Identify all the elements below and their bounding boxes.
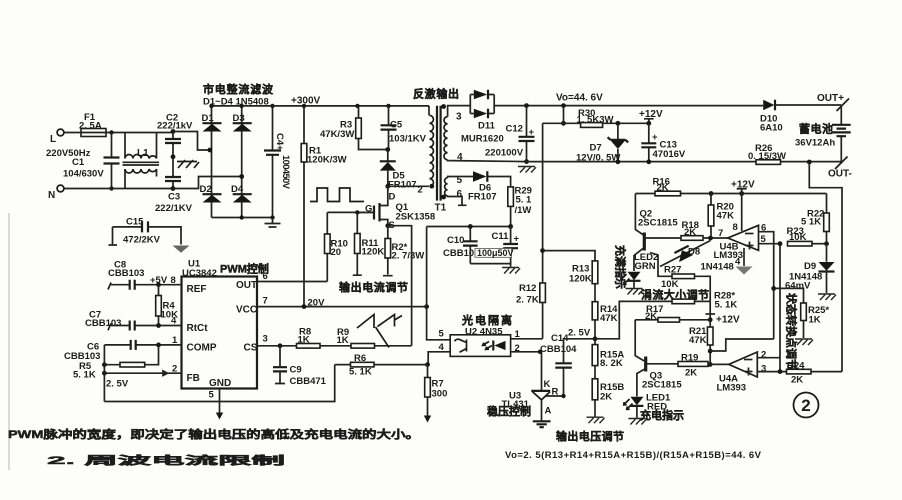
resistor R18 2K [664,237,681,239]
svg-text:8: 8 [171,275,176,286]
capacitor C14 CBB104 [564,339,596,396]
svg-text:2K: 2K [600,392,612,403]
transistor Q2 2SC1815 [635,194,644,236]
diode D10 6A10 [763,100,774,111]
svg-text:472/2KV: 472/2KV [123,235,161,246]
CS pin3 line with R8 R9 [257,345,412,347]
svg-text:1K: 1K [809,315,821,326]
svg-text:状态转换点调节: 状态转换点调节 [785,293,799,370]
diode D9 1N4148 [826,244,828,293]
resistor R9 1K [351,344,375,349]
svg-text:K: K [544,379,551,390]
primary ground rail [104,365,334,402]
resistor R11 120K [353,212,362,275]
resistor R17 2K [635,319,710,321]
svg-text:10K: 10K [661,279,679,290]
svg-text:120K: 120K [569,274,592,285]
svg-text:L: L [50,134,56,145]
node bridge top left [209,104,213,108]
U4A plus input wire / R24 [757,371,842,373]
battery 36V12Ah [840,105,842,125]
svg-text:5: 5 [209,390,215,401]
svg-text:4: 4 [735,257,741,268]
svg-text:2. 5V: 2. 5V [568,328,591,339]
svg-text:1N4148: 1N4148 [701,262,734,273]
resistor R12 2.7K [540,283,546,303]
primary ground stub under C4 [265,218,281,228]
pin4 RtCt line [135,325,182,327]
svg-text:100μ50V: 100μ50V [477,248,514,258]
wire OUT- sense down right edge [809,162,842,372]
svg-text:12V/0. 5W: 12V/0. 5W [576,153,620,164]
svg-text:OUT-: OUT- [828,169,852,180]
node F1/C1 junction [109,130,113,134]
resistor R8 1K [297,344,321,349]
svg-text:2SC1815: 2SC1815 [642,380,682,391]
svg-text:47K/3W: 47K/3W [320,129,354,140]
wire D6 to R29 [487,177,510,187]
svg-text:+: + [529,127,535,138]
svg-text:R: R [552,387,559,398]
svg-text:104/630V: 104/630V [63,169,104,180]
svg-text:GRN: GRN [635,261,656,272]
capacitor C11 100u/50V [510,227,512,264]
square wave symbol [310,188,364,202]
svg-text:D8: D8 [688,247,700,258]
svg-text:C5: C5 [390,120,403,131]
svg-text:0. 15/3W: 0. 15/3W [748,151,786,162]
svg-text:蓄电池: 蓄电池 [799,122,833,136]
svg-text:COMP: COMP [187,343,217,354]
svg-text:D9: D9 [804,261,816,272]
svg-text:8: 8 [733,222,738,233]
capacitor C4 electrolytic [272,106,274,218]
svg-text:103/1KV: 103/1KV [389,134,427,145]
svg-text:Vo=44. 6V: Vo=44. 6V [556,93,603,104]
wire N to bridge bottom jog [64,188,173,190]
svg-text:C4+: C4+ [274,133,285,151]
svg-text:2: 2 [801,396,810,415]
svg-text:2: 2 [172,364,177,375]
resistor R25* 1K [774,288,804,338]
svg-text:REF: REF [187,284,207,295]
diode D5 FR107 clamp [387,150,389,187]
TL431 U3 [541,352,543,421]
svg-text:3: 3 [263,334,268,345]
svg-text:2K: 2K [657,183,669,194]
svg-text:+: + [514,234,520,245]
svg-text:5 1K: 5 1K [801,217,821,228]
R28 left drop to 2.5V tap [595,301,672,338]
svg-text:+: + [652,132,658,143]
svg-text:2K: 2K [684,227,696,238]
svg-text:2K: 2K [685,368,697,379]
Vo sense drop to R30 line [563,106,565,124]
svg-text:充满指示: 充满指示 [614,245,628,289]
node C1 bottom [109,186,113,190]
svg-text:7: 7 [718,228,723,239]
svg-text:2K: 2K [645,311,657,322]
svg-text:PWM控制: PWM控制 [220,262,269,276]
resistor R16 2K [655,191,681,196]
svg-text:6: 6 [457,189,463,200]
svg-text:64mV: 64mV [785,281,811,292]
svg-text:FB: FB [187,373,200,384]
zener D7 12V/0.5W [616,121,621,126]
resistor R4 10K [158,285,160,326]
svg-text:Vo=2. 5(R13+R14+R15A+R15B)/(R1: Vo=2. 5(R13+R14+R15A+R15B)/(R15A+R15B)=4… [505,450,762,461]
circled 2 figure number [794,393,819,418]
svg-text:5. 1K: 5. 1K [73,370,96,381]
svg-text:CBB103: CBB103 [443,248,479,259]
transformer primary winding [428,106,430,116]
phase dot secondary top [441,104,446,109]
svg-text:R12: R12 [519,283,536,294]
scan artifact line left margin [8,213,10,470]
resistor R24 2K [787,369,812,374]
svg-text:GND: GND [209,378,231,389]
svg-text:6A10: 6A10 [760,123,783,134]
node drain / primary bottom [385,184,390,189]
capacitor C7 CBB103 [130,321,135,331]
op-amp U4B LM393 [728,225,759,250]
svg-text:+12V: +12V [716,315,740,326]
OUT+ connector slash [837,99,850,112]
svg-text:N: N [48,190,55,201]
svg-text:CBB471: CBB471 [290,376,327,387]
resistor R28* 5.1K (trickle) [695,300,711,302]
U1 GND pin5 stub [219,389,221,418]
wire C3 bottom jog to bridge AC2 [173,177,242,189]
svg-text:RtCt: RtCt [187,323,209,334]
wire R12 to U2 pin1 [511,303,543,339]
transformer secondary winding 5-6 [445,178,448,196]
svg-text:T1: T1 [435,203,447,214]
svg-text:VCC: VCC [236,305,257,316]
resistor R14 47K [592,302,598,320]
terminal N [57,185,64,192]
svg-text:300: 300 [432,389,448,400]
svg-text:220100V: 220100V [485,148,524,159]
op-amp U4A LM393 [729,352,758,377]
svg-text:充电指示: 充电指示 [640,408,684,422]
svg-text:8. 2K: 8. 2K [600,358,623,369]
svg-text:/1W: /1W [515,205,532,216]
LED1 RED indicator [630,397,643,406]
resistor R10 20 gate drive [326,212,328,281]
resistor R19 2K (base) [678,362,708,367]
chassis ground under divider [587,417,605,423]
svg-text:1K: 1K [337,335,349,346]
svg-text:47K: 47K [717,211,735,222]
svg-text:1K: 1K [298,335,310,346]
pin2 FB line [104,371,181,376]
pin1 COMP line [136,344,182,346]
wire D10 to OUT+ [775,104,841,106]
resistor R26 0.15/3W in rail [756,160,781,165]
svg-text:C10: C10 [447,235,464,246]
svg-text:3: 3 [761,364,766,375]
gate line to R10/R11 [327,211,374,213]
svg-text:5. 1K: 5. 1K [349,367,372,378]
svg-text:A: A [545,406,552,417]
resistor R30 1.5K3W [581,123,603,128]
svg-text:10K: 10K [789,232,807,243]
svg-text:C1: C1 [72,157,85,168]
svg-text:CBB104: CBB104 [540,344,577,355]
transformer secondary winding 3-4 [444,117,448,160]
svg-text:5. 1: 5. 1 [516,195,533,206]
resistor R7 300 [427,365,429,421]
svg-text:CBB103: CBB103 [85,318,121,329]
svg-text:R27: R27 [664,265,681,276]
svg-text:1: 1 [172,335,178,346]
node source S [385,223,390,228]
R21 tap jog to 64mV vertical [710,339,774,351]
diode D8 1N4148 (diagonal) [650,253,672,277]
svg-text:7: 7 [263,296,268,307]
capacitor C8 CBB103 [130,280,135,290]
svg-text:MUR1620: MUR1620 [461,134,504,145]
svg-text:L1: L1 [137,148,149,159]
svg-text:PWM脉冲的宽度，即决定了输出电压的高低及充电电流的大小。: PWM脉冲的宽度，即决定了输出电压的高低及充电电流的大小。 [8,427,420,441]
terminal L [57,129,64,136]
node rail / OUT- sense [807,160,812,165]
resistor R23 10K [788,241,813,246]
resistor R15B 2K [592,379,598,400]
U4B plus input wire [759,244,781,372]
svg-text:R6: R6 [354,353,366,364]
chassis ground at C11 [502,268,520,274]
wire C10/C11 bottoms [470,264,510,267]
LED2 GRN indicator [628,272,641,281]
svg-text:OUT: OUT [236,280,257,291]
svg-text:20: 20 [331,247,342,258]
wire aux rail down to U2 pin5 [427,227,451,340]
resistor R13 120K [592,261,598,284]
svg-text:市电整流滤波: 市电整流滤波 [203,82,274,96]
U2 pin2 wire to TL431 K [511,351,542,353]
phase dot secondary bottom [441,195,446,200]
resistor R3 47K/3W snubber [359,106,388,150]
capacitor C13 470/16V [648,123,650,162]
svg-text:36V12Ah: 36V12Ah [795,138,835,149]
svg-text:FR107: FR107 [468,192,497,203]
capacitor C5 103/1KV snubber [388,106,390,150]
svg-text:2. 7K: 2. 7K [516,295,539,306]
phase dot primary bottom [429,184,434,189]
svg-text:222/1KV: 222/1KV [155,203,193,214]
svg-text:R19: R19 [681,353,698,364]
node snubber/D5 [385,147,390,152]
node bridge AC2 [239,174,244,179]
svg-text:5. 1K: 5. 1K [715,300,738,311]
svg-text:输出电压调节: 输出电压调节 [556,429,624,443]
svg-text:2. 周波电流限制: 2. 周波电流限制 [47,453,285,467]
svg-text:反激输出: 反激输出 [413,87,459,101]
svg-text:20V: 20V [308,298,326,309]
wire L to fuse to C2 node [64,132,173,134]
U2 pin4 wire to R6/R7 node [428,352,450,365]
U4A output node [708,362,713,367]
svg-text:稳压控制: 稳压控制 [487,404,531,418]
svg-text:LM393: LM393 [717,383,747,394]
wire C2 top jog to bridge AC1 [173,132,210,151]
svg-text:2SC1815: 2SC1815 [638,218,678,229]
svg-text:47K: 47K [600,313,618,324]
node 2.5V divider tap [593,336,598,341]
svg-text:2K: 2K [791,375,803,386]
svg-text:2: 2 [418,185,423,196]
svg-text:1: 1 [515,329,521,340]
resistor R1 120K/3W startup [303,106,305,307]
svg-text:CS: CS [244,343,258,354]
chassis ground at C12 [518,167,536,173]
sense vertical to R12 [542,123,544,283]
svg-text:FR107: FR107 [388,180,417,191]
svg-text:输出电流调节: 输出电流调节 [339,280,408,294]
diode D6 FR107 [452,176,473,178]
+12V rail (comparator side) [635,193,826,195]
wire to divider top [543,251,595,261]
U4B gnd stub [743,248,745,266]
aux line to sense divider [543,122,581,124]
U4B minus input wire to 64mV node [759,232,774,339]
svg-text:C3: C3 [168,192,180,203]
chassis mark at filter midpoint [177,160,199,168]
wire source line to sense vertical [388,226,412,346]
svg-text:47016V: 47016V [653,149,686,160]
transformer core [437,106,441,201]
svg-text:OUT+: OUT+ [817,93,844,104]
svg-text:222/1kV: 222/1kV [157,121,193,132]
resistor R22 5.1K [826,194,828,244]
svg-text:120K/3W: 120K/3W [307,155,347,166]
capacitor C10 CBB103 [469,227,471,264]
U1 OUT pin6 wire [257,281,327,283]
resistor R20 47K pull-up [710,194,712,239]
R27/R28 right drop to +12V node [709,301,711,318]
svg-text:3: 3 [456,112,462,123]
resistor R2* 2.7/3W sense [383,226,393,276]
node C2/C3 midpoint [171,154,176,159]
U1 VCC 20V line [257,306,427,308]
node U2pin4/R6/R7 [425,362,430,367]
resistor R27 10K [672,274,695,279]
svg-text:120K: 120K [362,247,385,258]
wire drain node to transformer pin2 [388,185,429,187]
svg-text:2SK1358: 2SK1358 [396,212,436,223]
pin8 REF line / +5V [135,284,182,286]
svg-text:2. 7/3W: 2. 7/3W [392,251,425,262]
Vo rail [494,105,763,107]
svg-text:5: 5 [439,329,445,340]
OUT- connector slash [835,157,848,170]
resistor R29 5.1/1W [508,187,514,207]
capacitor C6 CBB103 [131,340,136,350]
svg-text:D11: D11 [478,121,496,132]
svg-text:C11: C11 [492,231,510,242]
bridge rectifier frame wires [212,106,273,218]
svg-text:CBB103: CBB103 [108,268,144,279]
svg-text:2. 5V: 2. 5V [106,379,129,390]
capacitor C9 CBB471 [275,346,285,384]
svg-text:100450V: 100450V [280,155,291,190]
rectifier D11 MUR1620 (dual diode) [470,95,494,114]
capacitor C12 220/100V [526,106,528,162]
resistor R6 5.1K [335,364,428,366]
svg-text:D: D [389,192,396,203]
resistor R21 47K pull-up [709,320,711,364]
left vertical COMP/FB to ground rail [103,345,105,402]
resistor R5 5.1K [104,345,158,365]
aux rail [427,226,511,228]
svg-text:47K: 47K [689,335,707,346]
secondary ground rail [451,161,842,162]
transistor Q3 2SC1815 [635,320,644,361]
svg-text:C12: C12 [506,124,523,135]
svg-text:2: 2 [761,350,766,361]
U2 internals [455,339,467,352]
node bridge AC1 [208,148,213,153]
svg-text:C9: C9 [290,365,302,376]
U4A minus input wire [757,357,780,359]
sawtooth waveform symbol [357,315,402,348]
U4B V+ stub [741,194,743,232]
svg-text:4: 4 [171,316,177,327]
resistor R15A 8.2K [592,345,598,366]
svg-text:R24: R24 [787,361,805,372]
svg-text:C14: C14 [551,333,569,344]
